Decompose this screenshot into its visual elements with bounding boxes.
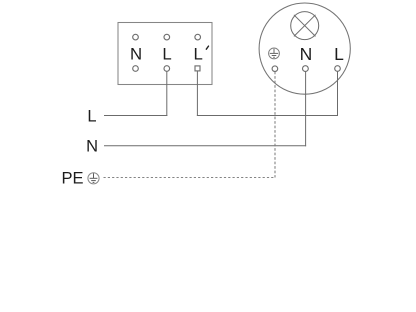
wire L' to lamp L horizontal: [197, 115, 338, 117]
wire from lamp N down: [305, 72, 307, 147]
wire from lamp L down: [337, 71, 339, 116]
lamp symbol cross stroke 2: [294, 15, 316, 37]
terminal block top contact L: [164, 34, 170, 40]
protective earth symbol after PE label: [88, 173, 99, 184]
terminal block X1 outline: [118, 23, 212, 85]
svg-text:L: L: [334, 44, 344, 64]
svg-text:N: N: [130, 45, 142, 64]
terminal block top contact L': [195, 34, 201, 40]
svg-text:N: N: [300, 44, 313, 64]
luminaire / sensor lamp E1 body circle: [259, 3, 350, 94]
wire from terminal block L down: [166, 71, 168, 116]
terminal block top contact N: [133, 34, 139, 40]
terminal block bottom contact N: [133, 66, 139, 72]
lamp contact L: [335, 66, 341, 72]
wire N supply horizontal: [104, 145, 306, 147]
svg-text:L: L: [194, 45, 203, 64]
prime mark of L': [206, 46, 208, 49]
svg-text:L: L: [87, 107, 96, 125]
lamp contact N: [303, 66, 309, 72]
protective earth symbol inside lamp: [269, 48, 280, 59]
wire from terminal block L' down: [196, 71, 198, 116]
svg-text:L: L: [162, 45, 171, 64]
lamp symbol cross stroke 1: [294, 15, 316, 37]
svg-text:PE: PE: [61, 170, 83, 188]
lamp symbol circle: [291, 12, 319, 40]
wire PE dashed horizontal: [104, 177, 276, 179]
wire PE dashed vertical to lamp PE contact: [274, 72, 276, 178]
lamp contact PE: [272, 66, 278, 72]
svg-text:N: N: [86, 138, 98, 156]
terminal block bottom contact L' (square): [195, 66, 200, 71]
terminal block bottom contact L: [164, 66, 170, 72]
wire L supply horizontal: [104, 115, 167, 117]
